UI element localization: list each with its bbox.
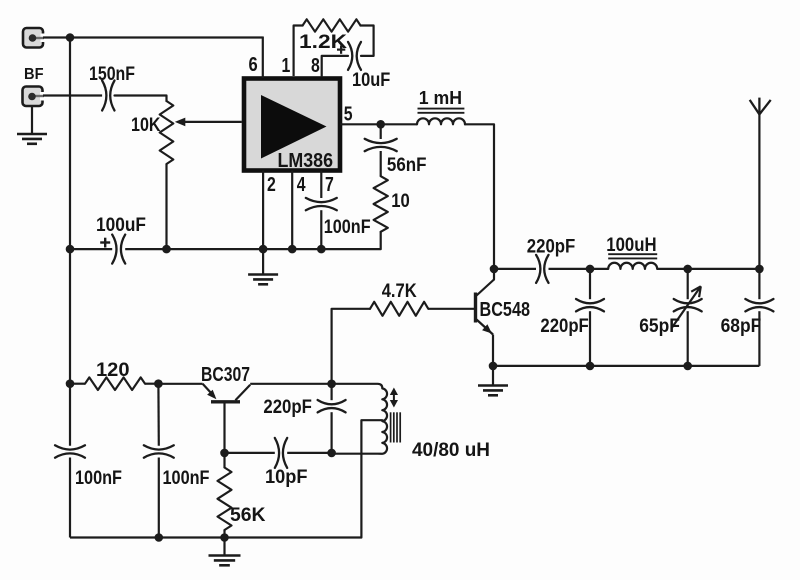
plus sign 100uF (100, 238, 110, 248)
svg-text:4: 4 (297, 174, 306, 196)
capacitor 220pF (series coupling) (536, 255, 548, 283)
wire ground rail right segment (125, 248, 321, 250)
junction collector / RF top rail (490, 265, 499, 274)
svg-text:10pF: 10pF (265, 467, 308, 488)
capacitor 100nF (pin 7 bypass) (306, 198, 337, 210)
capacitor 150nF (102, 81, 114, 111)
wire 10pF to tank node (287, 452, 331, 454)
junction pin 2 / ground (259, 245, 268, 254)
svg-text:BC307: BC307 (201, 364, 250, 386)
pin 5 wire (340, 123, 381, 125)
wire BC307 collector to osc node (250, 383, 331, 385)
junction pot bottom (162, 245, 171, 254)
junction pin 4 (288, 245, 297, 254)
svg-text:56K: 56K (230, 505, 266, 526)
wire L 1mH to RF rail (465, 124, 494, 279)
svg-text:150nF: 150nF (89, 64, 135, 85)
op-amp U1 LM386 body (244, 79, 340, 171)
svg-text:220pF: 220pF (540, 316, 588, 337)
label BC307 (201, 364, 250, 386)
inductor L2 100uH (608, 263, 657, 269)
wire 100nF mid bottom (158, 458, 160, 538)
junction oscillator node (327, 380, 336, 389)
label pin 2 (267, 174, 276, 196)
label BC548 (480, 299, 531, 321)
svg-text:5: 5 (344, 104, 353, 126)
label pin 8 (311, 55, 320, 77)
resistor 4.7K (370, 302, 428, 316)
label 150nF (89, 64, 135, 85)
wire left rail lower (69, 458, 71, 538)
resistor 10 (374, 176, 388, 232)
capacitor 10uF (electrolytic) (348, 42, 361, 70)
label 220pF (oscillator) (263, 397, 312, 418)
svg-text:100uH: 100uH (606, 235, 656, 256)
wiper arrow 10K (175, 118, 242, 127)
label 4.7K (382, 281, 417, 302)
core lines 100uH (608, 254, 657, 258)
svg-text:56nF: 56nF (387, 155, 427, 176)
label 10uF (352, 70, 390, 91)
wire BC548 emitter down (492, 335, 494, 386)
svg-text:4.7K: 4.7K (382, 281, 417, 302)
wire J2 to ground (31, 106, 33, 134)
label 1.2K (299, 32, 347, 53)
inductor L1 1 mH (417, 118, 465, 124)
svg-text:65pF: 65pF (639, 316, 680, 337)
svg-text:40/80 uH: 40/80 uH (412, 440, 490, 461)
wire top rail J1 to pin 6 (43, 36, 263, 38)
capacitor 68pF (745, 299, 773, 311)
wire left rail (V+ down left side) (69, 38, 71, 446)
wire 120 to BC307 emitter (158, 383, 202, 385)
label 220pF (series) (527, 237, 576, 258)
wire 65pF bottom (687, 311, 689, 366)
capacitor 220pF (oscillator) (318, 400, 346, 412)
wire pin5 node to L 1mH (381, 123, 417, 125)
junction pin 7 (317, 245, 326, 254)
resistor 1.2K (294, 19, 374, 56)
ground (input jack) (17, 134, 47, 144)
connector J2 (audio input BF) (23, 87, 46, 107)
svg-text:1 mH: 1 mH (419, 88, 462, 108)
pin 4 wire (291, 171, 293, 250)
inductor L3 40/80uH (tapped coil) (332, 384, 387, 454)
core lines 1 mH (418, 109, 465, 113)
transistor Q1 BC548 (476, 280, 495, 335)
svg-text:10uF: 10uF (352, 70, 390, 91)
label BF (24, 66, 44, 83)
label 56K (230, 505, 266, 526)
pin 6 wire (262, 37, 264, 79)
label 40/80 uH (412, 440, 490, 461)
label pin 1 (282, 55, 291, 77)
svg-text:6: 6 (249, 54, 258, 76)
ground (BC548 emitter) (478, 386, 508, 396)
label 65pF (639, 316, 680, 337)
label 10 (391, 191, 410, 212)
wire ground stem LM386 (262, 249, 264, 274)
label 10K (131, 115, 161, 136)
junction tank bottom node (327, 449, 336, 458)
wire C 150nF to potentiometer (115, 96, 167, 102)
svg-text:100nF: 100nF (163, 468, 210, 489)
connector J1 (audio input tip) (23, 28, 46, 48)
label 10pF (265, 467, 308, 488)
label 100uH (606, 235, 656, 256)
wire 220pF to tank bottom (331, 412, 333, 453)
wire ground rail left segment (70, 248, 112, 250)
junction bottom rail / 100nF mid (155, 533, 164, 542)
wire 68pF bottom (758, 311, 760, 366)
svg-text:120: 120 (96, 360, 130, 381)
capacitor 56nF (365, 139, 397, 151)
ground (oscillator) (209, 556, 241, 566)
svg-text:100uF: 100uF (96, 215, 146, 236)
plus sign 10uF (337, 46, 345, 54)
svg-text:BF: BF (24, 66, 44, 83)
junction pin5 node (376, 120, 385, 129)
wire osc node to 220pF (331, 384, 333, 400)
label 100uF (96, 215, 146, 236)
svg-text:10: 10 (391, 191, 410, 212)
wire 65pF top (687, 269, 689, 299)
resistor 120 (70, 377, 158, 390)
label LM386 (278, 150, 334, 172)
junction emitter / RF bottom rail (489, 362, 498, 371)
antenna (750, 98, 771, 269)
junction left rail / 120 (66, 379, 75, 388)
svg-text:8: 8 (311, 55, 320, 77)
wire R10 to ground rail (321, 232, 380, 249)
svg-text:1: 1 (282, 55, 291, 77)
wire BC307 base down (223, 404, 225, 453)
svg-text:BC548: BC548 (480, 299, 531, 321)
label 100nF (mid) (163, 468, 210, 489)
resistor 56K (218, 453, 232, 538)
svg-text:10K: 10K (131, 115, 161, 136)
junction bottom rail / 220pF (586, 362, 595, 371)
wire 100nF mid top (157, 384, 160, 446)
capacitor 220pF (tank) (576, 299, 604, 311)
label 100nF (pin7) (324, 217, 371, 238)
wire J2 to C 150nF (43, 94, 102, 96)
wire 220pF shunt bottom (589, 311, 591, 366)
wire 4.7K to BC548 base (428, 308, 474, 310)
wire RF top rail seg1 (494, 268, 536, 270)
pin 1 wire (293, 26, 295, 77)
label 68pF (721, 316, 762, 337)
capacitor 100nF (mid) (144, 445, 174, 457)
wire base node to 10pF (225, 452, 275, 454)
junction base / 10pF / 56K (220, 449, 229, 458)
pin 7 wire (320, 171, 322, 250)
junction top rail / antenna (755, 265, 764, 274)
junction top rail / 65pF (683, 265, 692, 274)
label 100nF (left) (75, 468, 122, 489)
tuning arrow 40/80uH (390, 388, 398, 408)
junction V+ rail (66, 33, 75, 42)
wire pot bottom to ground rail (165, 164, 167, 249)
svg-text:7: 7 (325, 174, 334, 196)
ground (LM386) (248, 275, 278, 285)
capacitor 65pF (variable trimmer) (672, 286, 702, 327)
wire coil tap to bottom rail (361, 420, 382, 537)
wire pin5 node to 56nF (380, 124, 382, 139)
label pin 7 (325, 174, 334, 196)
wire 220pF shunt top (589, 269, 591, 299)
label pin 6 (249, 54, 258, 76)
svg-text:220pF: 220pF (527, 237, 576, 258)
svg-text:100nF: 100nF (324, 217, 371, 238)
junction bottom rail / 65pF (683, 362, 692, 371)
transistor Q2 BC307 (203, 384, 251, 402)
pin 8 wire (322, 56, 348, 76)
wire RF bottom rail (493, 365, 759, 367)
junction top rail / 220pF shunt (586, 265, 595, 274)
svg-text:68pF: 68pF (721, 316, 762, 337)
svg-text:LM386: LM386 (278, 150, 334, 172)
wire bottom rail (70, 536, 361, 538)
wire ground stem bottom (223, 538, 225, 556)
svg-text:2: 2 (267, 174, 276, 196)
label 220pF (tank) (540, 316, 588, 337)
capacitor 10pF (275, 438, 287, 468)
label 56nF (387, 155, 427, 176)
label 120 (96, 360, 130, 381)
label pin 5 (344, 104, 353, 126)
wire 56nF to R10 (380, 151, 382, 176)
label pin 4 (297, 174, 306, 196)
wire RF top rail seg3 (657, 268, 759, 270)
wire RF top rail seg2 (549, 268, 609, 270)
potentiometer 10K (160, 101, 174, 164)
core lines 40/80uH (391, 412, 401, 442)
capacitor 100nF (left) (55, 445, 85, 457)
label 1 mH (419, 88, 462, 108)
svg-text:220pF: 220pF (263, 397, 312, 418)
wire 68pF top (antenna drop) (758, 269, 760, 299)
wire oscillator node to 4.7K (332, 309, 370, 384)
junction left rail / 100uF (66, 245, 75, 254)
junction bottom rail / 56K (220, 533, 229, 542)
svg-text:100nF: 100nF (75, 468, 122, 489)
junction 120 / 100nF / BC307 (154, 379, 163, 388)
pin 2 wire (262, 171, 264, 250)
capacitor 100uF (electrolytic) (112, 235, 125, 264)
